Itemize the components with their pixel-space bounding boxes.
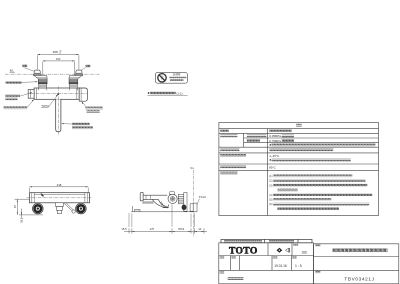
notes lines [269, 174, 272, 206]
table texts [296, 124, 302, 127]
left vertical dims [15, 199, 44, 215]
svg-text:97±3: 97±3 [178, 227, 184, 231]
svg-text:170: 170 [150, 227, 155, 231]
svg-text:(6): (6) [269, 202, 272, 206]
center lines [30, 93, 88, 95]
body bar [30, 193, 90, 203]
ext verticals from view [129, 205, 194, 228]
stop button label [5, 94, 20, 97]
svg-text:TBV03421J: TBV03421J [344, 276, 374, 281]
svg-text:(1:1): (1:1) [176, 91, 182, 95]
bottom datum [131, 211, 195, 213]
top small row [221, 239, 312, 242]
svg-text:85°C: 85°C [269, 165, 275, 169]
spout down [56, 99, 61, 132]
label cold side [86, 65, 91, 68]
svg-text:1 : 5: 1 : 5 [295, 264, 302, 268]
stack right of handle [178, 194, 184, 203]
caution label pointer [5, 81, 21, 84]
body [34, 88, 79, 99]
svg-text:0.05MPa: 0.05MPa [269, 134, 281, 138]
right cap [79, 88, 87, 101]
svg-text:218: 218 [57, 183, 62, 187]
small cell labels (approve/name) [293, 244, 298, 246]
center spout base stack [56, 203, 64, 207]
switch lever bump on top [169, 191, 174, 194]
svg-text:V.L: V.L [190, 166, 194, 170]
switch handle label [85, 107, 102, 110]
svg-text:1~45°C: 1~45°C [269, 154, 279, 158]
left handle [33, 203, 44, 214]
temperature handle label [4, 106, 28, 109]
svg-text:B.L: B.L [10, 69, 15, 73]
svg-text:0.75MPa: 0.75MPa [269, 139, 281, 143]
svg-text:(5): (5) [269, 198, 272, 202]
left leg [33, 70, 47, 88]
handle circle [168, 194, 177, 203]
svg-text:P.J1/2: P.J1/2 [199, 195, 207, 199]
label hot side [22, 65, 27, 68]
right leg (mirrored) [69, 70, 83, 88]
spout horizontal [140, 193, 143, 201]
dim arrows [37, 54, 79, 62]
left protrusion (stop button) [28, 90, 34, 99]
small label under spout [142, 202, 153, 204]
sign row labels [220, 256, 225, 258]
caption: label detail (1:1) [148, 92, 150, 94]
left block frame [219, 243, 314, 284]
dim 208+10/-10 line [37, 54, 79, 76]
svg-text:14: 14 [198, 227, 201, 231]
svg-text:152: 152 [56, 57, 61, 61]
svg-text:(4): (4) [269, 193, 272, 197]
spout swing label [72, 123, 89, 126]
svg-text:(3): (3) [269, 183, 272, 187]
svg-text:35.5: 35.5 [19, 217, 23, 223]
remark row [220, 271, 225, 273]
svg-text:-10: -10 [59, 52, 62, 54]
right handle [76, 203, 87, 214]
svg-text:15.5: 15.5 [121, 227, 127, 231]
svg-text:19.01.16: 19.01.16 [274, 264, 287, 268]
B.L dash-dot line [5, 73, 100, 75]
svg-text:(1): (1) [269, 174, 272, 178]
svg-text:208: 208 [53, 50, 58, 54]
svg-text:67: 67 [13, 205, 17, 208]
svg-text:TOTO: TOTO [229, 245, 258, 256]
svg-text:(2): (2) [269, 179, 272, 183]
wall flange [190, 204, 193, 211]
spout underside curve [158, 199, 168, 207]
name block [219, 244, 399, 284]
lever diagonal [64, 203, 74, 212]
dim 152 line [43, 60, 75, 62]
marks [277, 248, 283, 253]
